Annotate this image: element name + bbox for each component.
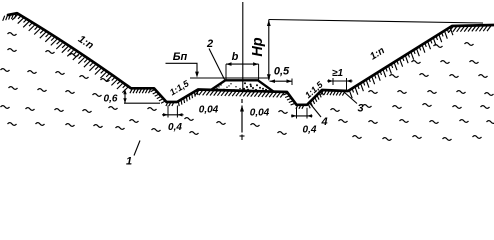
Bp leader line with arrow — [166, 63, 198, 73]
dimension Hp: vertical dimension line with end arrows — [268, 20, 270, 81]
design water level line — [190, 77, 270, 79]
hatch left-ditch-e — [178, 90, 198, 106]
svg-text:0,4: 0,4 — [303, 125, 317, 136]
svg-text:4: 4 — [320, 116, 327, 128]
svg-text:0,6: 0,6 — [104, 94, 118, 105]
leader line for label 3 — [344, 92, 357, 104]
canal axis centerline (above ground) — [242, 2, 244, 90]
svg-text:1: 1 — [126, 156, 132, 168]
svg-text:2: 2 — [206, 38, 213, 50]
tildes left field — [1, 33, 125, 130]
hatch left-ditch-b — [166, 102, 174, 106]
hatch right-crest — [449, 25, 492, 32]
hatch left-slope — [12, 14, 128, 93]
svg-text:≥1: ≥1 — [332, 68, 343, 79]
hatch right-slope — [349, 27, 453, 98]
hatch left-ditch-w — [151, 89, 166, 103]
dimension b: dimension line, extension lines, arrows — [226, 63, 259, 65]
hatch center-ground — [195, 90, 284, 98]
top horizontal datum line — [269, 20, 483, 24]
svg-text:0,04: 0,04 — [199, 105, 219, 116]
mound stipple dots — [216, 88, 217, 89]
leader line for label 1 — [134, 141, 140, 156]
svg-text:Нр: Нр — [250, 37, 266, 56]
svg-text:0,5: 0,5 — [274, 66, 290, 78]
leader line for label 4 — [310, 104, 321, 118]
hatch left-berm — [130, 88, 151, 93]
canal axis centerline below ground (dash-dot, up arrow) — [241, 99, 243, 103]
svg-text:Бп: Бп — [173, 51, 188, 63]
svg-text:3: 3 — [357, 103, 363, 115]
svg-text:0,4: 0,4 — [168, 122, 182, 133]
leader line for label 2 — [209, 49, 225, 80]
spoil bank mound (poz. 2) outline — [211, 80, 273, 91]
tildes center field — [130, 108, 340, 135]
hatch right-berm — [321, 90, 346, 96]
hatch right-ditch-w — [283, 93, 295, 105]
hatch right-ditch-b — [296, 105, 304, 109]
hatch right-ditch-e — [308, 91, 323, 109]
svg-text:0,04: 0,04 — [250, 108, 270, 119]
ground surface profile: left bank, berms, side ditches, right bank — [8, 13, 494, 105]
tildes right field — [339, 43, 494, 141]
svg-text:b: b — [232, 51, 239, 63]
hatch left-crest — [3, 13, 17, 20]
